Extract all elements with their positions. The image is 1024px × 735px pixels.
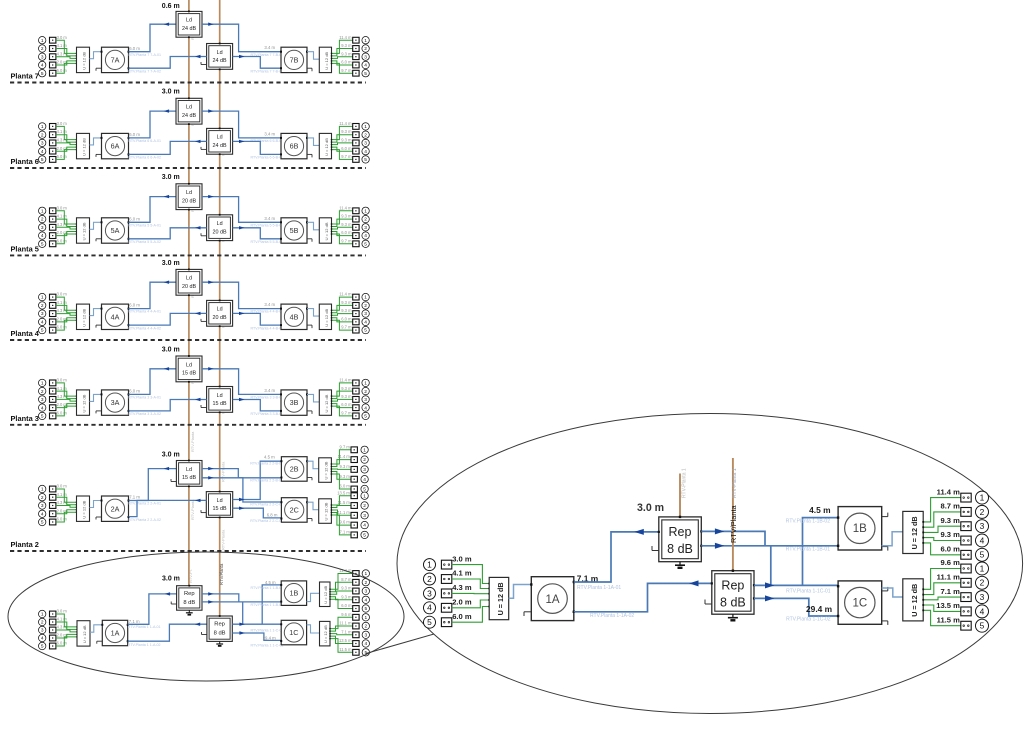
- PAU amplifier 1B (detail): [837, 507, 888, 551]
- svg-text:9.3 m: 9.3 m: [341, 214, 352, 219]
- svg-text:4: 4: [364, 149, 367, 155]
- svg-text:Rep: Rep: [184, 591, 195, 597]
- arrow out of tap Ld 7-left (left port): [164, 23, 170, 26]
- outlet number 4 (floor 2 left): [39, 510, 46, 517]
- svg-text:4: 4: [980, 606, 985, 616]
- TV outlet BAT 5B-1: [353, 208, 359, 214]
- svg-text:2: 2: [41, 303, 44, 309]
- wire Rep1 upper out (detail): [701, 531, 765, 545]
- outlet number 5 (2B): [361, 485, 368, 492]
- arrow out of tap Ld 4-right (left port): [195, 312, 201, 315]
- outlet number 5 (detail 1B): [976, 548, 989, 561]
- outlet cables 1C (green): [329, 617, 352, 652]
- TV outlet BAT 7A-3: [50, 54, 56, 60]
- svg-text:4: 4: [41, 320, 44, 326]
- outlet number 5 (Planta 1 left): [39, 642, 46, 649]
- TV outlet BAT 5B-2: [353, 216, 359, 222]
- svg-text:3: 3: [364, 225, 367, 231]
- svg-text:2B: 2B: [290, 465, 299, 474]
- svg-text:1: 1: [364, 38, 367, 44]
- TV outlet BAT 1C-2: [353, 623, 359, 629]
- TV outlet BAT 1A-1: [50, 611, 56, 617]
- svg-text:9.3 m: 9.3 m: [341, 300, 352, 305]
- svg-text:6.8 m: 6.8 m: [267, 513, 278, 518]
- riser RTV right (coax vertical): [219, 0, 221, 616]
- PAU amplifier 2C: [280, 498, 312, 523]
- svg-text:RTV/Planta: RTV/Planta: [219, 563, 224, 585]
- svg-text:6.0 m: 6.0 m: [341, 317, 352, 322]
- wire 1A to Rep2 (detail): [574, 583, 712, 611]
- arrow out of tap Ld 7-right (left port): [195, 55, 201, 58]
- TV outlet BAT 2A-5: [50, 519, 56, 525]
- svg-text:6B: 6B: [290, 142, 299, 151]
- svg-text:RTV-Planta: RTV-Planta: [221, 461, 226, 482]
- TV outlet BAT 1B-3: [353, 588, 359, 594]
- svg-text:13.5 m: 13.5 m: [337, 490, 350, 495]
- outlet number 4 (floor 6 left): [39, 148, 46, 155]
- svg-text:RTV.Planta 1 1-A-01: RTV.Planta 1 1-A-01: [128, 625, 161, 629]
- ground symbol below Rep 2: [216, 641, 223, 646]
- arrow out of tap Ld 6-left (left port): [164, 109, 170, 112]
- arrow out of tap Ld 4-left (left port): [164, 281, 170, 284]
- svg-text:11.4 m: 11.4 m: [338, 454, 351, 459]
- svg-text:6.0 m: 6.0 m: [57, 154, 68, 159]
- TV outlet BAT 2A-4: [50, 511, 56, 517]
- arrow tap Ld 2-right lower right port: [239, 507, 245, 510]
- outlet number 3 (detail 1A): [424, 587, 436, 599]
- svg-text:1: 1: [363, 447, 366, 453]
- user distributor U = 12 dB (floor 4 left): [77, 304, 90, 329]
- svg-text:9.7 m: 9.7 m: [341, 325, 352, 330]
- tap (derivador) Ld 15 dB floor 2 right riser: [201, 491, 233, 519]
- svg-text:U = 12 dB: U = 12 dB: [324, 394, 329, 412]
- wire jog to 1C level: [242, 602, 244, 624]
- svg-text:6.0 m: 6.0 m: [129, 389, 140, 394]
- svg-text:RTV.Planta 2 2-B-02: RTV.Planta 2 2-B-02: [250, 478, 283, 482]
- wire jog down to 1C level (detail): [770, 546, 772, 586]
- wire U to 1A (detail): [509, 585, 532, 599]
- TV outlet BAT 5B-4: [353, 233, 359, 239]
- wire U to amp 3A: [90, 394, 102, 401]
- TV outlet BAT 7B-1: [353, 37, 359, 43]
- wire 5B to U distributor: [307, 222, 319, 230]
- TV outlet BAT 1C-4: [353, 641, 359, 647]
- svg-text:RTV-Pl.: RTV-Pl.: [188, 569, 193, 583]
- svg-text:20 dB: 20 dB: [182, 198, 196, 204]
- svg-text:RTV-Planta: RTV-Planta: [221, 529, 226, 550]
- svg-text:8.7 m: 8.7 m: [341, 577, 352, 582]
- TV outlet BAT 2A-3: [50, 503, 56, 509]
- svg-text:9.6 m: 9.6 m: [940, 558, 960, 567]
- outlet number 5 (floor 4 left): [39, 326, 46, 333]
- outlet number 5 (1C): [362, 649, 369, 656]
- outlet number 4 (detail 1B): [976, 534, 989, 547]
- svg-text:6.0 m: 6.0 m: [129, 132, 140, 137]
- outlet cables 2C (green): [331, 496, 351, 535]
- svg-text:2: 2: [41, 620, 44, 626]
- svg-text:RTV.Planta 2 2-A-02: RTV.Planta 2 2-A-02: [128, 518, 161, 522]
- svg-text:RTV.Planta 7 7-A-02: RTV.Planta 7 7-A-02: [128, 69, 161, 73]
- svg-text:4: 4: [41, 405, 44, 411]
- arrow out of tap Ld 5-left (right port): [208, 195, 214, 198]
- PAU amplifier 1C: [280, 620, 306, 645]
- tap (derivador) Ld 20 dB floor 4 right riser: [201, 300, 233, 328]
- svg-text:5: 5: [364, 241, 367, 247]
- TV outlet BAT 1C-5 (detail): [961, 621, 971, 630]
- floor divider dashed line below Planta 5: [10, 254, 366, 256]
- outlet number 3 (Planta 1 left): [39, 626, 46, 633]
- svg-text:9.7 m: 9.7 m: [341, 238, 352, 243]
- svg-text:4: 4: [427, 603, 432, 613]
- arrow Rep1 left port (detail): [634, 529, 644, 535]
- outlet number 4 (1C): [362, 640, 369, 647]
- outlet number 2 (floor 5 left): [39, 215, 46, 222]
- TV outlet BAT 6A-4: [50, 148, 56, 154]
- svg-text:3.0 m: 3.0 m: [162, 347, 180, 354]
- svg-text:U = 12 dB: U = 12 dB: [82, 625, 87, 643]
- wire U to amp 7A: [90, 52, 102, 59]
- svg-text:3: 3: [364, 632, 367, 638]
- TV outlet BAT 7A-4: [50, 62, 56, 68]
- TV outlet BAT 2C-3: [351, 512, 357, 518]
- svg-text:3.0 m: 3.0 m: [57, 205, 68, 210]
- svg-text:6.0 m: 6.0 m: [129, 46, 140, 51]
- outlet number 4 (detail 1A): [424, 602, 436, 614]
- wire 1C to U distributor: [307, 625, 320, 633]
- arrow tap Ld 2-left upper right port: [208, 467, 214, 470]
- outlet number 5 (detail 1A): [424, 616, 436, 628]
- wire 4A to tap Ld 4-left: [129, 282, 177, 308]
- svg-text:2: 2: [980, 507, 985, 517]
- PAU amplifier 1C (detail): [837, 581, 888, 625]
- PAU amplifier 3B: [280, 390, 312, 415]
- svg-text:7.1 m: 7.1 m: [129, 495, 140, 500]
- svg-text:U = 12 dB: U = 12 dB: [324, 138, 329, 156]
- TV outlet BAT 1B-5 (detail): [961, 550, 971, 559]
- arrow out of tap Ld 7-right (right port): [239, 55, 245, 58]
- TV outlet BAT 1C-4 (detail): [961, 607, 971, 616]
- svg-text:2: 2: [41, 46, 44, 52]
- outlet number 1 (floor 6 right): [362, 123, 369, 130]
- svg-text:8 dB: 8 dB: [183, 600, 195, 606]
- svg-text:3.4 m: 3.4 m: [264, 131, 275, 136]
- TV outlet BAT 4A-2: [50, 303, 56, 309]
- svg-text:RTV.Planta 5 5-A-02: RTV.Planta 5 5-A-02: [128, 240, 161, 244]
- svg-text:U = 12 dB: U = 12 dB: [82, 394, 87, 412]
- outlet number 4 (2C): [361, 521, 368, 528]
- svg-text:RTV.Planta 4 4-A-02: RTV.Planta 4 4-A-02: [128, 326, 161, 330]
- outlet cables floor 7 left (green): [56, 40, 77, 73]
- svg-text:RTV.Planta 5 5-B-02: RTV.Planta 5 5-B-02: [251, 240, 284, 244]
- user distributor U = 12 dB (1A): [77, 621, 90, 646]
- arrow out of tap Ld 3-left (left port): [164, 367, 170, 370]
- wire 3A to tap Ld 3-left: [129, 369, 177, 395]
- svg-text:4: 4: [363, 523, 366, 529]
- outlet number 3 (floor 4 left): [39, 310, 46, 317]
- svg-text:RTV.Planta 1-1B-02: RTV.Planta 1-1B-02: [786, 518, 830, 524]
- svg-text:7A: 7A: [111, 56, 120, 65]
- svg-text:RTV/Planta: RTV/Planta: [729, 504, 738, 543]
- TV outlet BAT detail 1A-3: [441, 589, 451, 598]
- svg-text:7.1 m: 7.1 m: [341, 629, 352, 634]
- svg-text:2: 2: [364, 303, 367, 309]
- outlet number 1 (floor 5 right): [362, 207, 369, 214]
- TV outlet BAT detail 1A-1: [441, 560, 451, 569]
- svg-text:4.5 m: 4.5 m: [264, 455, 275, 460]
- svg-text:3: 3: [41, 54, 44, 60]
- svg-text:5: 5: [364, 328, 367, 334]
- outlet cables detail 1A (green): [452, 565, 490, 623]
- PAU amplifier 6B: [280, 133, 312, 158]
- wire 1B to U distributor: [307, 593, 320, 601]
- wire U to amp 6A: [90, 138, 102, 145]
- svg-text:15 dB: 15 dB: [182, 371, 196, 377]
- outlet number 4 (floor 6 right): [362, 148, 369, 155]
- riser into Rep1 (detail): [679, 474, 681, 517]
- svg-text:4.1 m: 4.1 m: [57, 386, 68, 391]
- svg-text:5: 5: [41, 644, 44, 650]
- svg-text:Ld: Ld: [217, 135, 223, 141]
- magnified detail ellipse (Planta 1 enlarged): [397, 414, 1023, 714]
- outlet number 3 (floor 6 right): [362, 139, 369, 146]
- svg-text:RTV.Planta 1 1-B-01: RTV.Planta 1 1-B-01: [251, 603, 284, 607]
- svg-text:7B: 7B: [290, 56, 299, 65]
- TV outlet BAT 7B-2: [353, 46, 359, 52]
- svg-text:9.3 m: 9.3 m: [340, 464, 351, 469]
- svg-text:24 dB: 24 dB: [213, 143, 227, 149]
- svg-text:4.1 m: 4.1 m: [57, 617, 68, 622]
- svg-text:3.0 m: 3.0 m: [162, 260, 180, 267]
- outlet number 1 (1C): [362, 614, 369, 621]
- PAU amplifier 4B: [280, 304, 312, 329]
- outlet cables floor 4 left (green): [56, 297, 77, 330]
- TV outlet BAT 1C-1: [353, 614, 359, 620]
- svg-text:4.3 m: 4.3 m: [452, 583, 472, 592]
- svg-text:1: 1: [364, 208, 367, 214]
- svg-text:RTV.Planta 4 4-A-01: RTV.Planta 4 4-A-01: [128, 310, 161, 314]
- svg-text:RTV.Planta 1 1-A-02: RTV.Planta 1 1-A-02: [128, 643, 161, 647]
- user distributor U = 12 dB (2B): [319, 458, 332, 483]
- svg-text:5: 5: [364, 606, 367, 612]
- wire tap Ld 2-right upper out to 2B top: [233, 461, 282, 499]
- wire riser to 1B top (4.5 m): [262, 585, 281, 624]
- svg-text:Planta 3: Planta 3: [11, 414, 39, 423]
- outlet number 2 (floor 3 right): [362, 387, 369, 394]
- TV outlet BAT 1C-3 (detail): [961, 593, 971, 602]
- svg-text:3: 3: [364, 311, 367, 317]
- arrow Rep2 upper right port: [239, 623, 245, 626]
- svg-text:9.3 m: 9.3 m: [341, 386, 352, 391]
- wire tap Ld 5-right to 5A bottom: [129, 228, 207, 239]
- svg-text:Rep: Rep: [669, 525, 692, 539]
- svg-text:3.4 m: 3.4 m: [264, 302, 275, 307]
- svg-text:2: 2: [41, 132, 44, 138]
- TV outlet BAT 6B-3: [353, 140, 359, 146]
- TV outlet BAT 5B-5: [353, 241, 359, 247]
- arrow out of tap Ld 5-right (left port): [195, 226, 201, 229]
- outlet number 1 (detail 1C): [976, 562, 989, 575]
- wire U to amp 2A: [90, 501, 102, 508]
- wire 2B to U distributor: [307, 461, 319, 469]
- svg-text:13.5 m: 13.5 m: [936, 601, 960, 610]
- outlet number 3 (2B): [361, 466, 368, 473]
- TV outlet BAT 2B-1: [351, 447, 357, 453]
- svg-text:5: 5: [41, 71, 44, 77]
- svg-text:15 dB: 15 dB: [213, 506, 227, 512]
- TV outlet BAT 3A-5: [50, 413, 56, 419]
- outlet number 2 (floor 3 left): [39, 387, 46, 394]
- svg-text:9.7 m: 9.7 m: [341, 154, 352, 159]
- svg-text:5: 5: [364, 414, 367, 420]
- floor divider dashed line below Planta 2: [10, 550, 366, 552]
- tap (derivador) Ld 24 dB floor 6 left riser: [176, 97, 202, 125]
- tap (derivador) Ld 20 dB floor 5 left riser: [176, 183, 202, 211]
- arrow out of tap Ld 4-right (right port): [239, 312, 245, 315]
- wire tap Ld 3-right to 3B bottom: [233, 400, 281, 411]
- svg-text:11.1 m: 11.1 m: [339, 621, 352, 626]
- arrow out of tap Ld 7-left (right port): [208, 23, 214, 26]
- wire Rep2 lower out to 1C bottom (29.4 m): [232, 633, 281, 640]
- svg-text:Rep: Rep: [721, 579, 744, 593]
- outlet number 3 (floor 4 right): [362, 310, 369, 317]
- svg-text:Ld: Ld: [186, 105, 192, 111]
- TV outlet BAT 1B-2: [353, 579, 359, 585]
- TV outlet BAT detail 1A-2: [441, 575, 451, 584]
- TV outlet BAT 6A-1: [50, 124, 56, 130]
- svg-text:11.4 m: 11.4 m: [339, 378, 352, 383]
- svg-text:3.0 m: 3.0 m: [452, 554, 472, 563]
- splitter Rep 8 dB lower (detail): [705, 570, 755, 615]
- wire 1C to U distributor (detail): [882, 588, 903, 597]
- outlet number 1 (floor 7 right): [362, 37, 369, 44]
- svg-text:RTV.Planta 2 2-B-01: RTV.Planta 2 2-B-01: [250, 462, 283, 466]
- svg-text:15 dB: 15 dB: [182, 475, 196, 481]
- wire Rep2 upper out to 1C top: [232, 623, 281, 625]
- svg-text:4A: 4A: [111, 312, 120, 321]
- wire tap Ld 4-right to 4B bottom: [233, 313, 281, 325]
- TV outlet BAT 1A-2: [50, 619, 56, 625]
- floor divider dashed line below Planta 7: [10, 82, 366, 84]
- wire tap Ld 5-right to 5B bottom: [233, 228, 281, 239]
- svg-text:U = 12 dB: U = 12 dB: [82, 500, 87, 518]
- svg-text:3.0 m: 3.0 m: [57, 484, 68, 489]
- svg-text:5: 5: [427, 617, 432, 627]
- svg-text:11.5 m: 11.5 m: [338, 500, 351, 505]
- svg-text:RTV.Planta 1-1A-01: RTV.Planta 1-1A-01: [577, 585, 621, 591]
- outlet number 1 (floor 3 right): [362, 379, 369, 386]
- svg-text:3: 3: [41, 397, 44, 403]
- wire tap Ld 7-right to 7A bottom: [129, 57, 207, 69]
- svg-text:2: 2: [364, 217, 367, 223]
- TV outlet BAT 3A-3: [50, 397, 56, 403]
- outlet number 3 (floor 2 left): [39, 502, 46, 509]
- svg-text:Ld: Ld: [217, 393, 223, 399]
- arrow Rep2 left port (detail): [689, 580, 699, 586]
- svg-text:1: 1: [41, 487, 44, 493]
- arrow tap Ld 2-right upper right port: [239, 498, 245, 501]
- svg-text:U = 12 dB: U = 12 dB: [496, 582, 505, 615]
- svg-text:U = 12 dB: U = 12 dB: [910, 516, 919, 549]
- svg-text:6.0 m: 6.0 m: [57, 517, 68, 522]
- svg-text:6.0 m: 6.0 m: [341, 402, 352, 407]
- outlet number 2 (detail 1C): [976, 576, 989, 589]
- outlet number 3 (1B): [362, 587, 369, 594]
- outlet number 3 (floor 7 left): [39, 53, 46, 60]
- wire 6A to tap Ld 6-left: [129, 111, 177, 138]
- svg-text:U = 12 dB: U = 12 dB: [82, 222, 87, 240]
- wire Rep1 lower out to 1B bottom (detail): [701, 545, 838, 547]
- PAU amplifier 4A: [96, 304, 130, 329]
- magnifier callout line: [366, 634, 434, 654]
- TV outlet BAT 5A-3: [50, 224, 56, 230]
- svg-text:Ld: Ld: [186, 18, 192, 24]
- svg-text:1B: 1B: [290, 589, 299, 598]
- svg-text:1C: 1C: [852, 598, 867, 610]
- outlet number 2 (1C): [362, 622, 369, 629]
- wire 7A to tap Ld 7-left: [129, 24, 177, 52]
- svg-text:Planta 4: Planta 4: [11, 329, 40, 338]
- svg-text:3.0 m: 3.0 m: [57, 35, 68, 40]
- arrow out of tap Ld 6-left (right port): [208, 109, 214, 112]
- svg-text:5: 5: [41, 414, 44, 420]
- svg-text:2: 2: [364, 132, 367, 138]
- svg-text:9.6 m: 9.6 m: [340, 520, 351, 525]
- TV outlet BAT 5A-2: [50, 216, 56, 222]
- outlet number 1 (detail 1B): [976, 491, 989, 504]
- svg-text:RTV-Planta 1: RTV-Planta 1: [682, 468, 688, 498]
- svg-text:RTV.Planta 2 2-A-01: RTV.Planta 2 2-A-01: [128, 502, 161, 506]
- svg-text:RTV.Planta 1 1-C-02: RTV.Planta 1 1-C-02: [251, 643, 284, 647]
- svg-text:20 dB: 20 dB: [213, 229, 227, 235]
- svg-text:Planta 7: Planta 7: [11, 72, 39, 81]
- svg-text:3.0 m: 3.0 m: [162, 88, 180, 95]
- PAU amplifier 2A: [96, 496, 130, 521]
- svg-text:4.1 m: 4.1 m: [57, 43, 68, 48]
- wire tap Ld 4-right to 4A bottom: [129, 313, 207, 325]
- svg-text:6.0 m: 6.0 m: [940, 545, 960, 554]
- svg-text:2.0 m: 2.0 m: [452, 598, 472, 607]
- svg-text:9.7 m: 9.7 m: [341, 68, 352, 73]
- TV outlet BAT 3B-4: [353, 405, 359, 411]
- svg-text:11.5 m: 11.5 m: [937, 615, 960, 624]
- svg-text:8 dB: 8 dB: [214, 631, 226, 637]
- outlet number 3 (2C): [361, 512, 368, 519]
- svg-text:3.0 m: 3.0 m: [57, 292, 68, 297]
- TV outlet BAT 4A-5: [50, 327, 56, 333]
- TV outlet BAT 3A-4: [50, 405, 56, 411]
- TV outlet BAT 1B-1: [353, 571, 359, 577]
- svg-text:Ld: Ld: [217, 307, 223, 313]
- svg-text:1: 1: [364, 124, 367, 130]
- svg-text:1: 1: [364, 615, 367, 621]
- TV outlet BAT 4A-4: [50, 319, 56, 325]
- outlet number 5 (floor 5 left): [39, 240, 46, 247]
- svg-text:3.0 m: 3.0 m: [637, 502, 664, 514]
- svg-text:4: 4: [41, 636, 44, 642]
- svg-text:1: 1: [980, 563, 985, 573]
- svg-text:11.1 m: 11.1 m: [338, 510, 351, 515]
- svg-text:3.0 m: 3.0 m: [162, 451, 180, 458]
- svg-text:6.0 m: 6.0 m: [129, 216, 140, 221]
- svg-text:U = 12 dB: U = 12 dB: [323, 585, 328, 603]
- TV outlet BAT 2B-3: [351, 467, 357, 473]
- svg-text:3.0 m: 3.0 m: [57, 121, 68, 126]
- svg-text:RTV.Planta 3 3-A-02: RTV.Planta 3 3-A-02: [128, 412, 161, 416]
- TV outlet BAT detail 1A-4: [441, 603, 451, 612]
- TV outlet BAT 1B-3 (detail): [961, 522, 971, 531]
- TV outlet BAT 5A-1: [50, 208, 56, 214]
- wire tap Ld 3-left to 3B: [202, 369, 281, 395]
